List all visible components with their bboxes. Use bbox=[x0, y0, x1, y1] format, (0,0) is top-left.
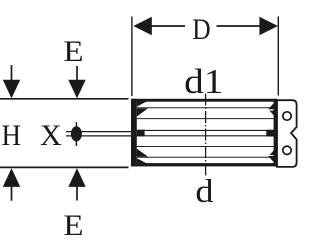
chamfer wedge left B bbox=[137, 108, 148, 116]
svg-text:d1: d1 bbox=[184, 63, 223, 102]
E dimension arrow bottom bbox=[68, 168, 85, 200]
part body: sleeve outline bbox=[131, 99, 277, 167]
slot left stub bbox=[137, 130, 145, 137]
body fill bbox=[131, 99, 277, 167]
svg-text:d: d bbox=[195, 173, 213, 210]
svg-text:E: E bbox=[63, 34, 83, 67]
chamfer wedge right B bbox=[270, 111, 276, 117]
chamfer wedge left C bbox=[137, 149, 148, 157]
rib line 4 bbox=[137, 156, 274, 158]
wire: left tangent line top (H/E reference, upper) bbox=[0, 98, 129, 100]
bottom edge bbox=[131, 163, 277, 166]
chamfer wedge right A bbox=[268, 102, 275, 110]
svg-text:D: D bbox=[192, 13, 210, 46]
wire: left tangent line bottom (H/E reference, lower) bbox=[0, 166, 129, 168]
top edge bbox=[131, 99, 277, 102]
chamfer wedge left A bbox=[137, 101, 147, 106]
chamfer wedge right D bbox=[268, 156, 275, 164]
H dimension arrow top bbox=[3, 65, 20, 98]
svg-text:E: E bbox=[63, 208, 83, 241]
slot: central rod channel bottom line bbox=[137, 135, 267, 137]
rod X: double line going into the sleeve bbox=[66, 131, 132, 133]
svg-text:H: H bbox=[1, 120, 20, 153]
screw hole top bbox=[283, 112, 291, 120]
node X: rod end cap (filled ellipse) bbox=[71, 126, 82, 141]
D dimension extension line right bbox=[277, 17, 279, 96]
D dimension line with arrows bbox=[133, 17, 278, 36]
chamfer wedge left D bbox=[137, 158, 147, 163]
chamfer wedge right C bbox=[270, 149, 276, 155]
rib line 3 bbox=[137, 146, 274, 148]
svg-text:X: X bbox=[40, 119, 62, 152]
D dimension extension line left bbox=[131, 17, 133, 97]
screw hole bottom bbox=[283, 146, 291, 154]
flange end plate with notch bbox=[277, 100, 297, 167]
E dimension arrow top bbox=[68, 66, 85, 98]
wire: short centerline through rod end bbox=[75, 122, 77, 146]
slot: central rod channel top line bbox=[137, 129, 267, 131]
slot right stub bbox=[266, 130, 274, 137]
left end bar bbox=[131, 99, 137, 167]
right end bar bbox=[274, 99, 278, 167]
H dimension arrow bottom bbox=[3, 168, 20, 200]
rib line 2 bbox=[137, 118, 274, 120]
centerline d1/d through part (chain line) bbox=[205, 94, 207, 178]
rib line 1 bbox=[137, 107, 274, 109]
